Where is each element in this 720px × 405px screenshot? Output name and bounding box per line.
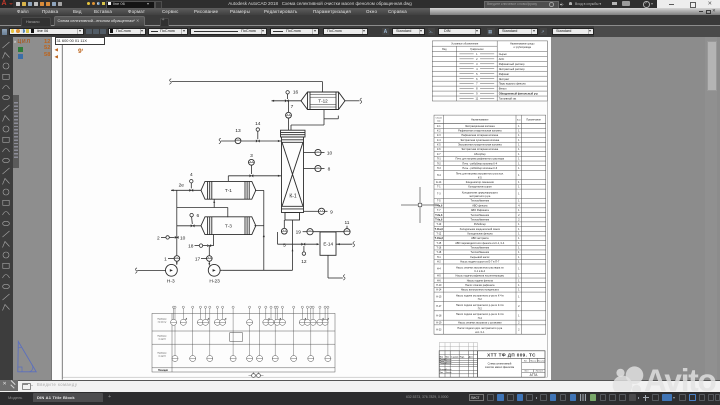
wire H-3 suction: [135, 268, 137, 274]
wire T-3 axis left: [177, 225, 202, 227]
bottom sampler symbol: [253, 372, 255, 374]
valve bowtie E-14: [301, 243, 305, 246]
left toolbar strip: [0, 37, 13, 391]
wire K-1 feed y175.8: [228, 175, 281, 177]
left draw-toolbar icons: [3, 42, 10, 311]
wire T-12 drain right: [324, 118, 338, 120]
heat exchanger T-1: [201, 181, 256, 199]
wire K-1 bottoms riser: [292, 220, 294, 270]
wire T-12 inlet line y100.8: [272, 100, 275, 102]
instrument bubbles local row: [171, 319, 177, 325]
dynamic input tooltip: [55, 37, 105, 45]
scrollbar track: [705, 37, 717, 380]
wire T-1 feed y190.3: [171, 189, 174, 191]
instrument bubbles panel row: [172, 356, 178, 362]
pump H-23: [208, 264, 223, 284]
valve 3: [250, 174, 254, 177]
heat exchanger T-3: [201, 217, 256, 235]
instrument 19: [307, 229, 313, 235]
valve 7 (PK): [288, 101, 290, 130]
palette sketch triangle: [18, 342, 36, 372]
wire top feed line y81.5: [169, 79, 171, 85]
valve 18b: [207, 244, 211, 247]
wire K-1 feed y141: [219, 138, 221, 144]
wire T-12 bottom to K-1: [323, 110, 325, 126]
heat exchanger T-12: [301, 92, 345, 110]
svg-text:Avito: Avito: [644, 362, 717, 398]
wire K-1 outlet 9: [304, 210, 319, 212]
instrument 13: [235, 138, 241, 144]
instrument 8: [315, 165, 321, 171]
controller box: [230, 333, 243, 342]
title block: [439, 343, 477, 351]
wire E-14 feed y244.2: [277, 232, 279, 244]
wire K-1 outlet 8: [304, 168, 315, 170]
wire E-14 outlet right: [336, 243, 352, 245]
instrument 10: [315, 149, 321, 155]
scrollbar thumb: [707, 41, 718, 91]
condenser E-14: [320, 232, 336, 255]
instrument 9: [318, 208, 324, 214]
wire E-14 bottom: [327, 255, 329, 278]
valve 14: [256, 139, 260, 142]
legend table (условные обозначения): [432, 41, 547, 101]
instrument stub lines: [173, 308, 175, 319]
wire interchange elbow: [176, 190, 178, 256]
palette vertical title tab: [13, 95, 19, 168]
sheet frame line left: [61, 37, 63, 380]
paper sheet: [51, 37, 551, 379]
valve 4: [190, 183, 192, 188]
pump H-3: [166, 264, 178, 284]
docked palette: [13, 37, 52, 380]
instrument 11: [344, 229, 350, 235]
valve 10b: [175, 236, 179, 239]
valve 5: [283, 220, 285, 228]
equipment list table: [434, 115, 546, 334]
instrumentation table: [152, 313, 335, 372]
valve 6: [191, 224, 195, 227]
wire K-1 outlet 10: [304, 152, 315, 154]
wire T-12 outlet right: [345, 100, 360, 102]
column K-1: [281, 130, 306, 220]
wire to E-14 via 19: [303, 231, 307, 233]
valve 2e: [189, 189, 193, 192]
sheet frame line bottom: [62, 376, 547, 378]
valve 12: [303, 246, 305, 252]
valve 16: [285, 99, 289, 102]
wire T-1 to T-3 right loop: [255, 189, 264, 191]
sheet frame line right: [546, 41, 548, 378]
crosshair cursor: [401, 187, 439, 223]
